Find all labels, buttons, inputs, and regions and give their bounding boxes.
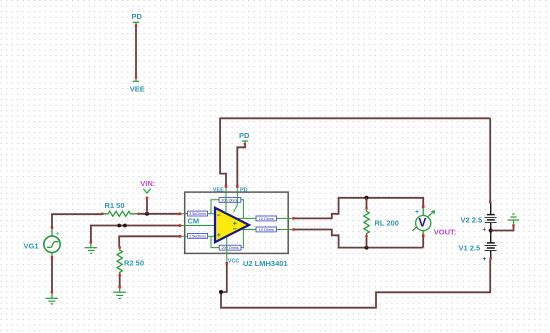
pin (right ground) <box>512 224 514 227</box>
wire R1 to U2 (+in) <box>140 213 180 215</box>
node dot CM a <box>117 224 121 228</box>
ground (right of V2, rotated) <box>508 214 520 225</box>
node VIN junction <box>145 212 149 216</box>
svg-text:+: + <box>482 256 486 263</box>
node RL bottom <box>365 246 369 250</box>
wire VIN stub <box>146 199 148 214</box>
wire PD internal diagonal <box>234 188 238 213</box>
svg-text:PD: PD <box>240 188 248 194</box>
pin (meter bottom) <box>422 234 425 237</box>
internal resistor box right-bottom (10 Ohms) <box>256 227 277 232</box>
pin (U2 +in) <box>179 213 182 216</box>
meter circle <box>416 216 431 231</box>
wire CM net <box>91 226 180 242</box>
V2 stem bottom <box>490 223 492 231</box>
pin (U2 PD top) <box>236 185 239 188</box>
svg-text:10 Ohms: 10 Ohms <box>259 228 274 232</box>
ground (CM) <box>85 243 98 253</box>
svg-text:VG1: VG1 <box>24 242 39 251</box>
svg-text:2.5kOhms: 2.5kOhms <box>189 212 206 216</box>
wire +in row <box>181 213 215 215</box>
R1 body <box>104 211 138 216</box>
R2 body <box>117 249 122 275</box>
pin (CM ground) <box>90 241 93 244</box>
svg-text:PD: PD <box>132 12 143 21</box>
svg-text:U2 LMH3401: U2 LMH3401 <box>243 259 288 268</box>
wire VCC internal vertical <box>226 238 228 254</box>
internal resistor box right-top (10 Ohms) <box>256 216 277 221</box>
svg-text:VOUT:: VOUT: <box>434 228 457 237</box>
wire feedback bottom right <box>241 230 244 248</box>
wire -in row <box>181 235 215 237</box>
op-amp U2 LMH3401 macro box <box>185 192 289 253</box>
PD jumper T-bar top <box>133 22 139 25</box>
pin (VIN testpoint) <box>146 197 148 200</box>
wire VEE internal vertical <box>225 188 227 213</box>
pin (R2 top) <box>119 246 121 248</box>
wire VCC stub outside <box>226 253 228 262</box>
pin (RL top) <box>365 207 367 209</box>
wire feedback bottom left <box>211 236 219 247</box>
svg-text:+: + <box>55 231 59 238</box>
meter arrowhead <box>431 211 434 214</box>
pin (R2 bottom) <box>119 274 121 276</box>
pin (RL bottom) <box>365 235 367 237</box>
svg-text:R2 50: R2 50 <box>124 259 144 268</box>
wire R2 to ground <box>119 276 121 286</box>
pin (VG1 bottom) <box>51 256 53 259</box>
svg-text:200 Ohms: 200 Ohms <box>222 246 239 250</box>
VIN testpoint arrow <box>143 189 150 193</box>
pin (U2 VCC bottom) <box>226 262 229 265</box>
wire out+ to load <box>295 198 423 219</box>
svg-text:CM: CM <box>188 217 200 226</box>
node VCC corner <box>219 290 223 294</box>
wire RL bottom stub <box>366 237 368 247</box>
pin (R2 ground) <box>118 286 121 289</box>
wire meter bottom to rail <box>422 237 424 248</box>
triangle minus (in) <box>217 214 221 216</box>
pin (VG1 top) <box>51 226 53 229</box>
svg-text:R1 50: R1 50 <box>105 201 125 210</box>
voltmeter VOUT <box>412 205 434 247</box>
wire midpoint to ground <box>491 226 514 231</box>
svg-text:V: V <box>418 216 426 230</box>
resistor R2 <box>117 246 144 276</box>
V2 plates <box>487 214 495 216</box>
svg-text:VEE: VEE <box>130 84 145 93</box>
V1 stem top <box>490 231 492 243</box>
wire out- row <box>240 229 256 231</box>
V1 stem bottom <box>490 251 492 258</box>
resistor RL 200 <box>364 207 399 237</box>
VG1 sigmoid waveform <box>47 242 59 248</box>
PD T-bar above U2 <box>242 141 248 144</box>
generator VG1 <box>24 226 61 258</box>
wire PD-to-VEE jumper <box>135 26 137 78</box>
battery V1 2.5 <box>459 231 497 263</box>
pin (U2 -in) <box>179 235 182 238</box>
svg-text:+: + <box>415 209 419 216</box>
pin (U2 CM) <box>179 224 182 227</box>
pin (VEE jumper bottom) <box>135 76 137 78</box>
wire VEE net: top horizontal run <box>220 118 490 186</box>
wire battery column top <box>489 118 491 202</box>
wire out- to load <box>295 230 423 248</box>
pin (VG1 ground) <box>51 291 54 294</box>
pin (U2 out- right) <box>292 228 295 231</box>
wire feedback top right <box>241 200 244 219</box>
RL body <box>364 210 369 235</box>
ground (below VG1) <box>46 293 59 304</box>
internal resistor box left-bottom <box>188 233 208 238</box>
pin (R1 right) <box>137 213 139 215</box>
svg-text:VIN:: VIN: <box>140 179 155 188</box>
internal resistor box bottom (200 Ohms) <box>219 245 241 250</box>
VG1 bottom lead <box>51 253 53 258</box>
svg-text:PD: PD <box>239 131 250 140</box>
node dot CM b <box>123 224 127 228</box>
pin (U2 VEE top) <box>225 185 228 188</box>
V1 plates <box>487 242 495 244</box>
resistor R1 <box>101 201 140 216</box>
U2 internal wires <box>181 200 293 263</box>
svg-text:V1 2.5: V1 2.5 <box>459 243 481 252</box>
internal resistor box left-top <box>188 211 208 216</box>
wire VG1 bottom to ground <box>51 258 53 291</box>
op-amp triangle U2 <box>215 208 249 242</box>
triangle plus (in) <box>217 233 221 237</box>
node RL top <box>365 196 369 200</box>
meter top lead <box>422 208 424 216</box>
pin (U2 out+ right) <box>292 217 295 220</box>
svg-text:VCC: VCC <box>228 258 240 264</box>
svg-text:+: + <box>482 227 486 234</box>
pin (PD stub) <box>244 143 246 145</box>
triangle minus (out) <box>233 228 237 230</box>
wire feedback top left <box>211 200 219 214</box>
pin (V1 bottom) <box>490 257 492 260</box>
svg-text:10 Ohms: 10 Ohms <box>259 217 274 221</box>
svg-text:RL 200: RL 200 <box>375 218 399 227</box>
meter needle diagonal <box>412 212 433 231</box>
ground (below R2) <box>113 288 126 298</box>
meter bottom lead <box>422 231 424 237</box>
svg-text:VEE: VEE <box>213 188 224 194</box>
wire PD stub to U2 <box>237 145 245 187</box>
wire out stubs right <box>277 217 294 219</box>
pin (PD jumper top) <box>135 24 137 26</box>
pin (V2 top) <box>489 201 491 204</box>
wire VG1 top to R1 <box>52 214 102 228</box>
svg-text:V2 2.5: V2 2.5 <box>461 215 483 224</box>
pin (R1 left) <box>101 213 103 215</box>
wire R2 node to U2 (-in) <box>119 236 179 246</box>
wire CM row <box>181 225 215 227</box>
triangle plus (out) <box>233 222 237 226</box>
wire bottom return (battery to VCC) <box>221 260 490 308</box>
wire out+ row <box>236 217 256 219</box>
V2 stem top <box>490 203 492 214</box>
node battery midpoint <box>489 228 493 232</box>
pin (meter top) <box>422 205 425 208</box>
VEE jumper T-bar bottom <box>133 79 139 82</box>
wire RL top stub <box>366 198 368 208</box>
VG1 circle <box>44 236 60 252</box>
battery V2 2.5 <box>461 203 497 234</box>
svg-text:2.5kOhms: 2.5kOhms <box>189 234 206 238</box>
internal resistor box top (200 Ohms) <box>219 197 241 202</box>
VG1 top lead <box>51 228 53 236</box>
svg-text:200 Ohms: 200 Ohms <box>221 198 238 202</box>
